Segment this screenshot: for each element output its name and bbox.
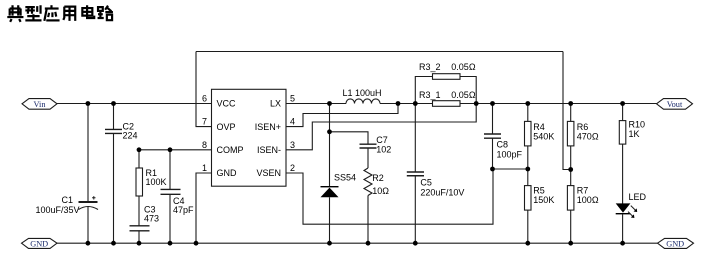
wire Vin rail bbox=[57, 103, 212, 105]
svg-text:4: 4 bbox=[290, 117, 295, 127]
wire OVP vertical + pin7 stub bbox=[196, 52, 212, 127]
wire SS54 branch vertical bbox=[329, 104, 331, 188]
wire ISEN+ route bbox=[286, 104, 398, 127]
svg-text:ISEN-: ISEN- bbox=[257, 145, 281, 155]
svg-text:1K: 1K bbox=[629, 129, 640, 139]
wire LX output rail segment 1 bbox=[286, 103, 346, 105]
node Vin label hexagon bbox=[22, 99, 57, 110]
wire output rail segment 2 bbox=[380, 103, 433, 105]
capacitor C1 electrolytic bbox=[87, 104, 89, 202]
IC pin names bbox=[217, 99, 282, 179]
svg-text:C5: C5 bbox=[420, 178, 432, 188]
svg-text:Vin: Vin bbox=[34, 100, 47, 109]
用 bbox=[63, 7, 75, 21]
resistor R1 bbox=[138, 150, 140, 168]
wire R3_2 right leg bbox=[460, 77, 476, 104]
典 bbox=[7, 5, 23, 22]
node Vout label hexagon bbox=[657, 99, 693, 110]
svg-text:102: 102 bbox=[376, 144, 391, 154]
svg-text:0.05Ω: 0.05Ω bbox=[451, 62, 476, 72]
resistor R3_1 box bbox=[433, 101, 461, 107]
resistor R10 bbox=[622, 104, 624, 121]
resistor R2 zigzag bbox=[364, 168, 372, 196]
svg-text:3: 3 bbox=[290, 140, 295, 150]
title 典型应用电路 (drawn as strokes) bbox=[7, 5, 113, 22]
电 bbox=[82, 5, 94, 18]
diode SS54 bbox=[321, 186, 339, 197]
svg-text:LED: LED bbox=[629, 192, 647, 202]
svg-text:LX: LX bbox=[270, 99, 281, 109]
wire top OVP rail bbox=[196, 51, 563, 53]
resistor R5 bbox=[527, 169, 529, 186]
component value labels bbox=[36, 62, 647, 224]
svg-text:GND: GND bbox=[30, 240, 48, 249]
resistor R4 bbox=[527, 104, 529, 122]
svg-text:5: 5 bbox=[290, 94, 295, 104]
svg-text:150K: 150K bbox=[533, 195, 554, 205]
svg-text:100uF/35V: 100uF/35V bbox=[36, 205, 80, 215]
wire bottom GND rail bbox=[57, 242, 658, 244]
IC pin numbers bbox=[202, 94, 295, 174]
svg-text:OVP: OVP bbox=[217, 122, 236, 132]
svg-text:C8: C8 bbox=[497, 140, 509, 150]
svg-text:R3_1: R3_1 bbox=[419, 90, 441, 100]
svg-text:10Ω: 10Ω bbox=[372, 186, 389, 196]
svg-text:470Ω: 470Ω bbox=[577, 131, 599, 141]
svg-text:ISEN+: ISEN+ bbox=[255, 122, 281, 132]
svg-text:100pF: 100pF bbox=[497, 150, 523, 160]
svg-text:540K: 540K bbox=[533, 131, 554, 141]
svg-text:473: 473 bbox=[144, 214, 159, 224]
型 bbox=[25, 5, 41, 20]
svg-text:47pF: 47pF bbox=[173, 205, 194, 215]
resistor R3_2 box bbox=[433, 74, 461, 80]
wire output rail segment 3 bbox=[460, 103, 657, 105]
svg-text:R10: R10 bbox=[629, 120, 646, 130]
svg-text:R3_2: R3_2 bbox=[419, 62, 441, 72]
node GND label hexagon (right) bbox=[658, 238, 694, 248]
capacitor C8 bbox=[492, 104, 494, 134]
LED D1 bbox=[616, 203, 631, 214]
svg-text:7: 7 bbox=[202, 117, 207, 127]
svg-text:SS54: SS54 bbox=[334, 173, 356, 183]
capacitor C5 bbox=[414, 104, 416, 172]
wire ISEN- route bbox=[286, 104, 476, 150]
svg-text:220uF/10V: 220uF/10V bbox=[420, 188, 464, 198]
svg-text:8: 8 bbox=[202, 140, 207, 150]
node GND label hexagon (left) bbox=[22, 238, 58, 248]
svg-text:VSEN: VSEN bbox=[256, 168, 281, 178]
wire pin1 GND elbow bbox=[196, 173, 212, 243]
wire R2 to GND bbox=[367, 196, 369, 244]
svg-text:COMP: COMP bbox=[217, 145, 244, 155]
capacitor C2 bbox=[113, 104, 115, 130]
svg-text:C1: C1 bbox=[62, 195, 74, 205]
capacitor C3 bbox=[130, 226, 150, 231]
resistor R7 bbox=[570, 170, 572, 186]
resistor R6 bbox=[570, 104, 572, 122]
svg-text:GND: GND bbox=[666, 240, 684, 249]
路 bbox=[98, 6, 113, 21]
svg-text:R2: R2 bbox=[372, 173, 384, 183]
inductor L1 coil bbox=[346, 99, 380, 104]
svg-text:GND: GND bbox=[217, 168, 238, 178]
svg-text:100K: 100K bbox=[146, 177, 167, 187]
svg-text:0.05Ω: 0.05Ω bbox=[451, 90, 476, 100]
svg-text:6: 6 bbox=[202, 94, 207, 104]
LED arrows bbox=[628, 206, 636, 217]
svg-text:2: 2 bbox=[290, 163, 295, 173]
应 bbox=[44, 5, 59, 21]
wire R3_2 branch bbox=[415, 77, 432, 104]
svg-text:Vout: Vout bbox=[667, 100, 683, 109]
wire feedback link bbox=[493, 168, 528, 170]
capacitor C7 bbox=[360, 144, 377, 148]
wire C7 branch bbox=[330, 132, 369, 144]
wire VSEN route bbox=[286, 169, 493, 224]
wire COMP line pin8 bbox=[139, 149, 212, 151]
svg-text:224: 224 bbox=[123, 131, 138, 141]
wire OVP right vertical bbox=[563, 52, 571, 170]
svg-text:VCC: VCC bbox=[217, 99, 237, 109]
svg-text:1: 1 bbox=[202, 163, 207, 173]
capacitor C4 bbox=[169, 150, 171, 189]
wire C7 to R2 bbox=[367, 148, 369, 168]
svg-text:L1 100uH: L1 100uH bbox=[343, 88, 382, 98]
svg-text:100Ω: 100Ω bbox=[577, 195, 599, 205]
op-amp U1 IC box bbox=[212, 89, 287, 186]
